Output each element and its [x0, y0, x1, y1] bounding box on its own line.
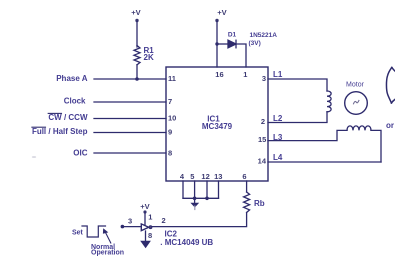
- svg-text:1: 1: [243, 70, 247, 79]
- pin 9 label: [168, 128, 172, 137]
- svg-text:13: 13: [214, 172, 222, 181]
- svg-text:10: 10: [168, 114, 176, 123]
- pin 5 label: [190, 172, 194, 181]
- svg-text:. MC14049 UB: . MC14049 UB: [160, 238, 213, 247]
- pin 13 label: [214, 172, 222, 181]
- pin 2 label IC2: [162, 216, 166, 225]
- svg-text:Rb: Rb: [254, 199, 265, 208]
- wire pin 12 down: [206, 181, 208, 198]
- svg-text:2: 2: [162, 216, 166, 225]
- +V supply (left, above R1): [131, 8, 140, 22]
- wire OIC: [94, 152, 166, 154]
- svg-text:MC3479: MC3479: [202, 122, 233, 131]
- pin 10 label: [168, 114, 176, 123]
- svg-text:Clock: Clock: [64, 97, 86, 106]
- motor M1 circle: [345, 92, 368, 115]
- wire pin 4 down: [182, 181, 184, 198]
- svg-text:+V: +V: [131, 8, 140, 17]
- annotation arrow: [106, 233, 111, 244]
- alternate motor clipped body: [391, 67, 395, 103]
- wire pin 13 down: [218, 181, 220, 198]
- svg-text:5: 5: [190, 172, 194, 181]
- wire L1: [268, 79, 327, 91]
- svg-text:L1: L1: [273, 70, 283, 79]
- label IC1 MC3479: [202, 115, 233, 132]
- wire Clock: [94, 101, 166, 103]
- wire to diode: [217, 43, 228, 45]
- pin 11 label: [168, 74, 176, 83]
- svg-text:+V: +V: [140, 202, 149, 211]
- resistor Rb: [244, 192, 250, 213]
- buffer IC2 triangle: [141, 224, 148, 231]
- svg-text:Full / Half Step: Full / Half Step: [32, 127, 88, 136]
- pin 1 label: [243, 70, 247, 79]
- pin 3 label IC2: [128, 217, 132, 226]
- pin 4 label: [180, 172, 185, 181]
- wire +V to pin 16: [216, 21, 218, 67]
- wire R1 to Phase A node: [136, 65, 138, 79]
- label D1: [228, 32, 237, 39]
- pin 8 label: [168, 148, 172, 157]
- pin 7 label: [168, 97, 172, 106]
- wire L4: [268, 161, 381, 163]
- +V supply (above pin 16): [215, 8, 226, 22]
- label or: [386, 121, 394, 130]
- svg-text:2K: 2K: [144, 53, 154, 62]
- node input dot: [121, 225, 125, 229]
- label IC2: [165, 230, 178, 239]
- pin 14 label: [258, 157, 267, 166]
- svg-text:3: 3: [128, 217, 132, 226]
- svg-text:+V: +V: [217, 8, 226, 17]
- svg-text:Set: Set: [72, 230, 84, 237]
- wire CW/CCW: [94, 118, 166, 120]
- wire diode to pin 1: [236, 44, 246, 67]
- svg-text:6: 6: [242, 172, 246, 181]
- wire Phase A: [94, 78, 166, 80]
- svg-text:8: 8: [168, 148, 172, 157]
- svg-text:L3: L3: [273, 133, 283, 142]
- svg-text:11: 11: [168, 74, 176, 83]
- svg-text:15: 15: [258, 135, 266, 144]
- label MC14049 UB: [160, 238, 213, 247]
- svg-text:D1: D1: [228, 32, 237, 39]
- svg-text:8: 8: [148, 231, 152, 240]
- svg-text:1N5221A: 1N5221A: [250, 32, 278, 39]
- stray mark: [32, 156, 36, 158]
- label Set: [72, 230, 84, 237]
- wire +V to IC2 top: [144, 212, 146, 225]
- svg-text:16: 16: [215, 70, 223, 79]
- set pulse waveform: [82, 226, 106, 237]
- node junction pin5/bus: [193, 197, 197, 201]
- motor label: [346, 82, 365, 89]
- wire pin 6 down: [246, 181, 248, 192]
- svg-text:or: or: [386, 121, 394, 130]
- label 1N5221A (3V): [249, 32, 278, 47]
- pin 12 label: [201, 172, 209, 181]
- diode D1: [228, 40, 236, 48]
- label L3: [273, 133, 283, 142]
- inverter bubble: [149, 226, 152, 229]
- motor symbol squiggle: [354, 100, 359, 103]
- svg-text:(3V): (3V): [249, 40, 261, 47]
- pin 16 label: [215, 70, 223, 79]
- ground arrow under IC2: [140, 241, 151, 248]
- pin 1 label IC2: [148, 213, 152, 222]
- wire pin 5 down: [194, 181, 196, 203]
- label R1 2K: [144, 46, 155, 62]
- wire Rb down and left to IC2 output: [152, 213, 246, 227]
- wire winding to L4: [371, 130, 381, 162]
- svg-text:OIC: OIC: [73, 149, 87, 158]
- inductor winding L1-L2: [327, 91, 331, 112]
- wire +V to R1: [136, 21, 138, 47]
- label L4: [273, 153, 283, 162]
- svg-text:12: 12: [201, 172, 209, 181]
- pin 6 label: [242, 172, 246, 181]
- pin 2 label: [261, 117, 265, 126]
- pin 3 label: [262, 74, 266, 83]
- +V supply (above IC2): [140, 202, 149, 214]
- wire IC2 bottom to ground: [145, 231, 147, 241]
- ground arrow under IC1: [190, 203, 199, 208]
- svg-text:2: 2: [261, 117, 265, 126]
- resistor R1: [134, 46, 140, 65]
- svg-text:14: 14: [258, 157, 267, 166]
- wire winding to L2: [268, 112, 327, 123]
- wire input to IC2: [122, 226, 141, 228]
- label Normal Operation: [91, 244, 124, 256]
- overline over CW: [48, 112, 61, 114]
- svg-text:1: 1: [148, 213, 152, 222]
- node junction at diode anode: [215, 42, 218, 45]
- pin 15 label: [258, 135, 266, 144]
- op IC1 box: [166, 67, 268, 181]
- svg-text:L2: L2: [273, 114, 283, 123]
- svg-text:L4: L4: [273, 153, 283, 162]
- label Rb: [254, 199, 265, 208]
- label L1: [273, 70, 283, 79]
- label L2: [273, 114, 283, 123]
- svg-text:7: 7: [168, 97, 172, 106]
- alternate motor (clipped at right edge): [386, 67, 391, 103]
- svg-text:CW / CCW: CW / CCW: [48, 113, 88, 122]
- overline over Full: [32, 126, 46, 128]
- wire ground bus: [183, 197, 219, 199]
- svg-text:3: 3: [262, 74, 266, 83]
- node junction pin12/bus: [205, 197, 209, 201]
- wire Full/Half Step: [94, 132, 166, 134]
- node junction on Phase A line: [135, 77, 139, 81]
- inductor winding L3-L4: [347, 126, 371, 130]
- pin 8 label IC2: [148, 231, 152, 240]
- wire L3: [268, 130, 347, 140]
- svg-text:Operation: Operation: [91, 249, 124, 256]
- svg-text:Phase A: Phase A: [56, 74, 87, 83]
- svg-text:Motor: Motor: [346, 82, 365, 89]
- svg-text:9: 9: [168, 128, 172, 137]
